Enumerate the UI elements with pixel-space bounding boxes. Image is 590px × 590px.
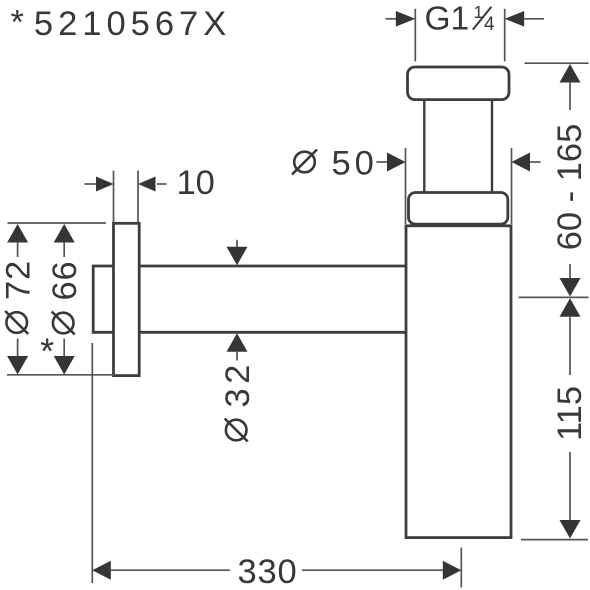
dimension 115 (right side lower) (551, 298, 589, 538)
svg-text:10: 10 (177, 164, 215, 202)
330 left extension line (91, 343, 93, 583)
svg-text:115: 115 (551, 386, 589, 441)
Ø50 left arrow (376, 161, 388, 163)
10 left arrow (85, 183, 97, 185)
dimension 60 - 165 (right side upper) (551, 64, 589, 297)
330 left arrow (92, 561, 111, 580)
dimension 10 (flange thickness) (85, 164, 215, 222)
svg-text:32: 32 (219, 360, 257, 407)
svg-text:4: 4 (484, 14, 495, 35)
dimension Ø32 (pipe diameter) (219, 240, 257, 442)
Ø72/Ø66 top tick (8, 222, 107, 224)
Ø50 right arrow (512, 153, 531, 172)
vertical inlet pipe (423, 98, 425, 194)
svg-text:330: 330 (238, 553, 298, 590)
wall stub left end (92, 265, 95, 334)
10 right extension line (137, 171, 139, 223)
svg-text:*: * (11, 4, 24, 42)
dimension 330 (wall to body axis) (92, 343, 461, 590)
G1 1/4 left arrow (386, 18, 398, 20)
dimension Ø66 (rosette diameter) (40, 224, 84, 375)
svg-text:G1: G1 (425, 1, 470, 38)
siphon body (406, 226, 511, 538)
svg-text:60 - 165: 60 - 165 (551, 124, 589, 251)
Ø32 upper arrow (236, 240, 238, 249)
Ø72/Ø66 bottom tick (7, 374, 114, 376)
330 right arrow (302, 569, 443, 571)
top nut (408, 67, 510, 100)
Ø50 label (294, 152, 315, 173)
horizontal outlet pipe bottom line (93, 331, 406, 334)
horizontal outlet pipe top line (93, 265, 406, 268)
G1 1/4 right extension line (504, 9, 506, 62)
svg-text:66: 66 (46, 261, 84, 301)
Ø50 right extension line (511, 148, 513, 224)
G1 1/4 right arrow (505, 11, 525, 27)
60-165 / 115 middle tick (519, 296, 589, 298)
60-165 dimension top tick (525, 62, 589, 64)
svg-text:*: * (40, 331, 54, 372)
lower nut (409, 193, 508, 225)
dimension G1 1/4 (thread size, top) (386, 1, 545, 62)
Ø32 label (219, 360, 257, 441)
product code label * 5210567X (11, 4, 232, 44)
svg-text:5210567X: 5210567X (34, 5, 231, 43)
Ø32 lower arrow (227, 333, 248, 352)
G1 1/4 left extension line (414, 9, 416, 62)
svg-text:72: 72 (0, 260, 37, 300)
10 right arrow (138, 177, 156, 192)
115 bottom tick (521, 539, 588, 541)
330 right extension line (460, 548, 462, 588)
wall flange (114, 223, 140, 375)
svg-text:50: 50 (332, 145, 378, 183)
dimension Ø72 (flange diameter) (0, 224, 37, 375)
dimension Ø50 (body diameter) (292, 145, 541, 225)
Ø50 left extension line (405, 148, 407, 224)
10 left extension line (113, 171, 115, 223)
